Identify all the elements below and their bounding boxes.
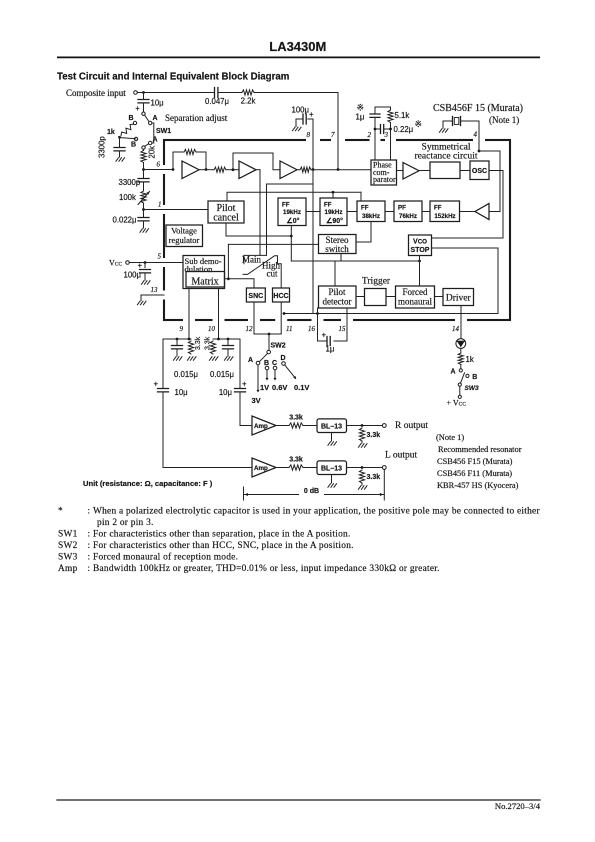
svg-text:pin 2 or pin 3.: pin 2 or pin 3. [97,518,154,528]
svg-text:16: 16 [308,325,316,333]
svg-text:cut: cut [267,269,278,279]
svg-text:7: 7 [331,131,335,139]
svg-text:A: A [451,369,456,376]
svg-text:No.2720–3/4: No.2720–3/4 [495,801,541,811]
svg-text:KBR-457 HS (Kyocera): KBR-457 HS (Kyocera) [437,481,519,490]
svg-text:6: 6 [157,161,161,169]
svg-text:10: 10 [208,325,216,333]
svg-text:parator: parator [373,175,396,184]
svg-text:1μ: 1μ [326,345,335,354]
svg-text:8: 8 [307,131,311,139]
svg-text:VCO: VCO [413,239,427,246]
svg-text:3.3k: 3.3k [195,336,202,350]
svg-text:38kHz: 38kHz [362,213,380,220]
svg-text:1k: 1k [466,355,474,364]
svg-text:SW3: SW3 [58,553,78,563]
svg-text:A: A [153,137,158,144]
svg-text:76kHz: 76kHz [399,213,417,220]
svg-text:PF: PF [398,205,406,212]
svg-text:*: * [58,507,63,517]
svg-text:Amp: Amp [254,423,268,430]
svg-text:B: B [129,115,134,122]
svg-text:3.3k: 3.3k [367,474,381,481]
svg-text:Amp: Amp [58,564,78,574]
svg-text:20k: 20k [148,146,157,159]
svg-text:CSB456 F11 (Murata): CSB456 F11 (Murata) [437,469,512,478]
svg-text:CSB456 F15 (Murata): CSB456 F15 (Murata) [437,457,513,466]
svg-text:Forced: Forced [403,287,428,297]
svg-text:Matrix: Matrix [191,276,218,287]
svg-text::: : [88,553,91,563]
svg-text:For characteristics other than: For characteristics other than separatio… [93,530,351,540]
svg-text:Main: Main [242,255,261,265]
svg-text:+: + [309,110,314,119]
svg-text:switch: switch [325,244,349,254]
svg-text:0.015μ: 0.015μ [174,370,198,379]
svg-text:Recommended resonator: Recommended resonator [438,445,522,454]
svg-text:HCC: HCC [273,293,288,300]
svg-text:3.3k: 3.3k [289,457,303,464]
svg-text:+ VCC: + VCC [447,399,467,408]
svg-text:0.022μ: 0.022μ [113,216,137,225]
svg-text:11: 11 [286,325,292,333]
svg-text:1k: 1k [107,129,115,136]
svg-text:LA3430M: LA3430M [269,39,326,54]
svg-text:Trigger: Trigger [362,277,391,287]
svg-text:+: + [242,380,247,389]
svg-text:1μ: 1μ [356,113,365,122]
svg-text:19kHz: 19kHz [325,209,343,216]
svg-text:※: ※ [415,119,423,129]
svg-text:Composite input: Composite input [66,88,126,98]
svg-text:Driver: Driver [446,294,472,304]
svg-text:(Note 1): (Note 1) [489,115,519,125]
svg-text:13: 13 [151,286,159,294]
svg-text:3300p: 3300p [119,178,141,187]
svg-text:Amp: Amp [254,465,268,472]
svg-text:Test Circuit and Internal Equi: Test Circuit and Internal Equivalent Blo… [57,72,290,83]
svg-text:14: 14 [452,325,460,333]
svg-text:For characteristics other than: For characteristics other than HCC, SNC,… [93,541,354,551]
svg-text:FF: FF [324,202,332,209]
svg-text::: : [88,564,91,574]
svg-text:SW2: SW2 [58,541,78,551]
svg-text:10μ: 10μ [175,388,188,397]
svg-text:B: B [264,360,269,367]
svg-text:A: A [248,357,253,364]
svg-text:2: 2 [368,131,372,139]
svg-text:BL–13: BL–13 [321,466,342,473]
svg-text:detector: detector [323,297,352,307]
svg-text:SW1: SW1 [58,530,78,540]
svg-text:0 dB: 0 dB [304,488,319,495]
svg-text:OSC: OSC [472,168,487,175]
svg-text:3V: 3V [252,396,261,405]
svg-text:152kHz: 152kHz [434,213,455,220]
svg-text:SNC: SNC [248,293,263,300]
svg-text:19kHz: 19kHz [283,209,301,216]
svg-text:0.015μ: 0.015μ [210,370,234,379]
svg-text::: : [88,507,91,517]
svg-text:FF: FF [282,202,290,209]
svg-text:2.2k: 2.2k [241,97,256,106]
svg-text:100μ: 100μ [124,271,142,280]
svg-text:0.047μ: 0.047μ [205,97,229,106]
svg-text:0.22μ: 0.22μ [394,125,414,134]
svg-text:dulation: dulation [185,264,214,274]
svg-text:D: D [281,355,286,362]
svg-text:B: B [472,374,477,381]
svg-text:+: + [154,380,159,389]
svg-text:CSB456F 15 (Murata): CSB456F 15 (Murata) [433,103,523,114]
svg-text::: : [88,541,91,551]
svg-text:1: 1 [158,201,162,209]
svg-text:FF: FF [361,205,369,212]
svg-text:4: 4 [474,131,478,139]
svg-text:SW2: SW2 [271,343,286,350]
svg-text:0.1V: 0.1V [294,383,309,392]
svg-text:Forced monaural of reception m: Forced monaural of reception mode. [93,552,238,563]
svg-text:SW3: SW3 [465,385,479,392]
svg-text:monaural: monaural [398,297,432,307]
svg-text:C: C [272,360,277,367]
svg-text:cancel: cancel [213,213,239,224]
svg-text:STOP: STOP [411,247,430,254]
svg-text:A: A [153,115,158,122]
svg-text:9: 9 [180,325,184,333]
svg-text:1V: 1V [260,383,269,392]
svg-text::: : [88,530,91,540]
svg-text:(Note 1): (Note 1) [436,433,464,442]
svg-text:100μ: 100μ [292,106,310,115]
svg-text:3.3k: 3.3k [205,336,212,350]
svg-text:3.3k: 3.3k [289,415,303,422]
svg-text:Voltage: Voltage [171,226,197,236]
svg-text:3: 3 [384,131,389,139]
svg-text:Separation adjust: Separation adjust [165,113,228,123]
svg-text:reactance circuit: reactance circuit [414,150,477,161]
svg-text:B: B [131,142,136,149]
svg-text:3.3k: 3.3k [367,432,381,439]
svg-text:VCC: VCC [109,259,122,268]
svg-text:15: 15 [339,325,347,333]
svg-text:Unit (resistance: Ω, capacitan: Unit (resistance: Ω, capacitance: F ) [83,479,213,488]
svg-text:regulator: regulator [169,235,200,245]
svg-text:∠90°: ∠90° [326,217,343,225]
svg-text:L output: L output [385,451,417,461]
svg-text:0.6V: 0.6V [272,383,287,392]
svg-text:3300p: 3300p [98,136,107,158]
svg-text:Bandwidth 100kHz or greater, T: Bandwidth 100kHz or greater, THD=0.01% o… [93,564,440,574]
svg-text:SW1: SW1 [156,128,171,135]
svg-text:100k: 100k [119,193,136,202]
svg-text:10μ: 10μ [219,388,232,397]
svg-text:10μ: 10μ [151,99,164,108]
svg-text:FF: FF [434,205,442,212]
svg-text:+: + [135,104,140,113]
svg-text:Pilot: Pilot [328,287,346,297]
svg-text:R output: R output [395,421,428,431]
svg-text:When a polarized electrolytic: When a polarized electrolytic capacitor … [93,507,540,517]
svg-text:+: + [138,261,143,270]
svg-text:∠0°: ∠0° [287,217,300,225]
svg-text:5.1k: 5.1k [395,111,410,120]
svg-text:+: + [322,331,327,340]
svg-text:※: ※ [357,103,365,113]
svg-text:BL–13: BL–13 [321,424,342,431]
svg-text:5: 5 [158,253,162,261]
svg-text:12: 12 [246,325,254,333]
